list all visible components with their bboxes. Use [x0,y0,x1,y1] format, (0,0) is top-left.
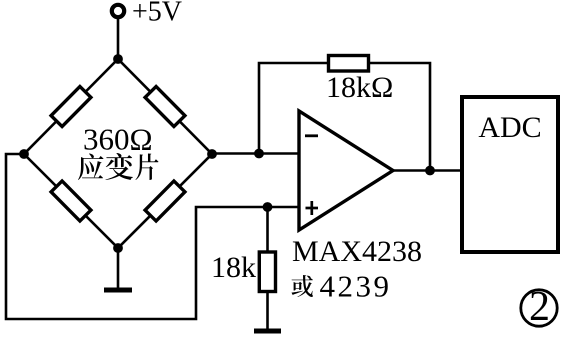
resistor: bridge strain gauge bottom-right [145,181,185,221]
wire: feedback loop from - input node over 18k ohm to output node [259,63,430,170]
svg-text:4239: 4239 [320,269,392,304]
node: bridge right [207,149,217,159]
wire: op-amp output to ADC [393,169,462,172]
svg-text:+5V: +5V [132,0,182,28]
wire: right bridge node to op-amp - input [212,152,299,155]
op-amp noninverting input + sign [306,201,319,215]
wire: bridge arm top-left [24,59,118,154]
node: bridge top [113,54,123,64]
wire: + input node down to resistor 18k [266,207,269,252]
resistor: bridge strain gauge top-right [145,86,185,126]
resistor: 18k to ground at + input [259,252,275,292]
wire: bridge bottom node to ground [117,248,120,288]
resistor: feedback 18k ohm [329,56,369,72]
svg-text:360Ω: 360Ω [83,122,153,157]
resistor: bridge strain gauge bottom-left [51,181,91,221]
node: bridge left [19,149,29,159]
svg-text:MAX4238: MAX4238 [292,235,422,268]
op-amp inverting input - sign [305,134,318,137]
terminal: +5V supply circle [112,5,124,17]
node: output / feedback junction [425,166,435,176]
resistor: bridge strain gauge top-left [51,86,91,126]
label: chinese or 或 [291,275,312,297]
wire: bridge arm bottom-left [24,154,118,248]
wire: +5V terminal to bridge top node [117,18,120,60]
node: noninverting input / 18k tap [263,202,273,212]
svg-text:18k: 18k [211,251,256,284]
ground: below 18k resistor [254,329,281,334]
wire: resistor 18k to ground [266,292,269,331]
op-amp MAX4238 triangle [299,111,393,230]
svg-text:ADC: ADC [478,111,541,144]
label: strain gauge chinese 应变片 [78,153,158,180]
node: inverting input / feedback tap [254,149,264,159]
svg-text:18kΩ: 18kΩ [326,71,393,104]
ground: below bridge [104,288,132,293]
node: bridge bottom [113,243,123,253]
figure number circle [521,290,557,326]
wire: bridge arm top-right [118,59,212,154]
wire: left bridge node down-around to op-amp + input [6,154,299,319]
ADC block [462,97,558,252]
wire: bridge arm bottom-right [118,154,212,248]
